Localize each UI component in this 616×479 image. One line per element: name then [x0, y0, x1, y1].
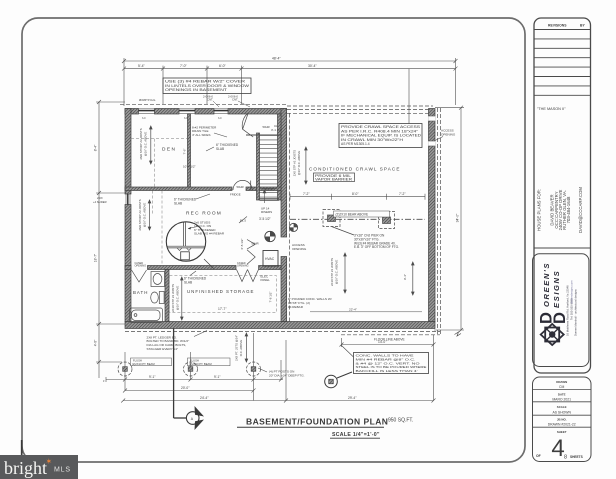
svg-text:7'-0": 7'-0": [180, 64, 188, 68]
svg-text:6'-5 1/2": 6'-5 1/2": [240, 239, 244, 250]
svg-text:JB NO.: JB NO.: [557, 417, 567, 421]
svg-text:703-484-1648: 703-484-1648: [566, 196, 571, 223]
svg-text:FLUSH: FLUSH: [190, 358, 199, 362]
svg-text:2ND STORY #2 JOISTS: 2ND STORY #2 JOISTS: [139, 128, 143, 159]
svg-text:"THE MASON II": "THE MASON II": [537, 107, 566, 111]
svg-text:2ND STORY #2 JOISTS: 2ND STORY #2 JOISTS: [138, 199, 142, 230]
svg-text:AS PER M1305.1.4: AS PER M1305.1.4: [341, 142, 370, 146]
svg-text:doreendesigns.com: doreendesigns.com: [570, 280, 574, 304]
svg-text:VAPOR BARRIER: VAPOR BARRIER: [315, 178, 353, 182]
svg-text:MLS: MLS: [54, 467, 71, 474]
svg-text:50HR: 50HR: [237, 185, 244, 189]
svg-text:50HR: 50HR: [263, 125, 270, 129]
svg-text:3-0: 3-0: [142, 117, 146, 120]
svg-text:BY: BY: [580, 24, 585, 28]
svg-text:6'-0": 6'-0": [219, 64, 227, 68]
svg-text:3'-1 1/2": 3'-1 1/2": [271, 128, 282, 132]
svg-text:SLAB: SLAB: [174, 201, 182, 205]
svg-text:SLAB W/2 #4 REBAR: SLAB W/2 #4 REBAR: [194, 232, 225, 236]
svg-text:18'-7": 18'-7": [94, 253, 98, 262]
svg-text:B1.5: B1.5: [240, 219, 246, 223]
svg-text:OF: OF: [536, 454, 541, 458]
svg-text:22'-4": 22'-4": [349, 308, 357, 312]
svg-text:ESIGNS: ESIGNS: [552, 270, 561, 308]
svg-text:BATH: BATH: [133, 290, 148, 295]
svg-text:7'-2": 7'-2": [303, 192, 310, 196]
svg-text:SHEETS: SHEETS: [570, 455, 583, 459]
svg-text:FRIDGE: FRIDGE: [230, 193, 241, 197]
svg-text:2X8 PT. JSTS @24": 2X8 PT. JSTS @24": [235, 335, 239, 361]
svg-text:BAKCFILL IS LESS THAN 4': BAKCFILL IS LESS THAN 4': [356, 369, 419, 373]
svg-text:30'-4": 30'-4": [308, 64, 317, 68]
svg-text:@16" O.C. ABOVE: @16" O.C. ABOVE: [142, 203, 146, 228]
svg-text:SLAB: SLAB: [216, 147, 224, 151]
svg-text:7'-8 1/2": 7'-8 1/2": [269, 292, 273, 303]
svg-text:1': 1': [103, 379, 105, 383]
svg-text:SHEET: SHEET: [557, 430, 567, 434]
svg-text:CNT.: CNT.: [207, 98, 213, 102]
svg-text:FLOOR LINE ABOVE: FLOOR LINE ABOVE: [374, 338, 405, 342]
svg-text:SLAB: SLAB: [184, 280, 192, 284]
svg-text:CONDITIONED CRAWL SPACE: CONDITIONED CRAWL SPACE: [309, 167, 401, 172]
svg-text:REVISIONS: REVISIONS: [548, 24, 567, 28]
svg-text:#4 REBAR: #4 REBAR: [288, 305, 304, 309]
svg-text:OPENING: OPENING: [135, 265, 147, 268]
svg-text:✶: ✶: [46, 457, 53, 466]
svg-text:Doreen Marshall - architectura: Doreen Marshall - architectural designs: [574, 289, 578, 336]
svg-text:O.C. ABOVE: O.C. ABOVE: [239, 340, 243, 357]
svg-text:OPENING: OPENING: [237, 265, 249, 268]
svg-text:PANEL: PANEL: [261, 278, 271, 282]
svg-text:DRAWN #2021-22: DRAWN #2021-22: [548, 423, 576, 427]
svg-text:OPENINGS IN BASEMENT: OPENINGS IN BASEMENT: [165, 88, 227, 92]
svg-text:@16" O.C. ABOVE: @16" O.C. ABOVE: [175, 286, 179, 311]
svg-text:29'-4": 29'-4": [348, 396, 357, 400]
svg-text:8: 8: [564, 455, 567, 461]
svg-text:CM: CM: [559, 385, 564, 389]
svg-text:9'-4": 9'-4": [403, 274, 407, 280]
svg-text:#DMP 5'CLG.: #DMP 5'CLG.: [139, 98, 156, 102]
svg-text:HVAC: HVAC: [265, 257, 275, 261]
svg-text:9'-1": 9'-1": [149, 375, 155, 379]
svg-text:950 SQ.FT.: 950 SQ.FT.: [388, 418, 413, 424]
svg-text:5'-4": 5'-4": [138, 64, 146, 68]
svg-text:3-0: 3-0: [218, 117, 222, 120]
svg-text:20'-0": 20'-0": [181, 386, 190, 390]
svg-text:2-0X: 2-0X: [97, 196, 103, 200]
svg-text:20" DIA. x24" DEEP FTG.: 20" DIA. x24" DEEP FTG.: [269, 373, 305, 377]
svg-text:OPENING: OPENING: [292, 247, 307, 251]
svg-text:OREEN'S: OREEN'S: [542, 262, 551, 307]
svg-text:7'-2": 7'-2": [399, 192, 406, 196]
svg-text:SCALE: SCALE: [557, 405, 567, 409]
svg-text:E.B. 3" OFF BOTTOM OF FTG.: E.B. 3" OFF BOTTOM OF FTG.: [354, 245, 399, 249]
svg-text:MARO 2021: MARO 2021: [552, 397, 571, 401]
svg-text:4: 4: [551, 435, 564, 462]
svg-text:REC ROOM: REC ROOM: [186, 211, 222, 217]
svg-text:DAVID@CCCARP.COM: DAVID@CCCARP.COM: [578, 187, 583, 233]
svg-text:@16" O.C. ABOVE: @16" O.C. ABOVE: [334, 260, 338, 285]
svg-text:4'-0": 4'-0": [94, 339, 98, 346]
svg-text:SCALE 1/4"=1'-0": SCALE 1/4"=1'-0": [332, 432, 380, 438]
svg-text:BASEMENT/FOUNDATION PLAN: BASEMENT/FOUNDATION PLAN: [246, 417, 388, 427]
svg-text:STAGGER EVERY 14": STAGGER EVERY 14": [147, 347, 179, 351]
svg-text:16 Matthews Road Rd, Hartford,: 16 Matthews Road Rd, Hartford, Va 22546: [566, 285, 570, 336]
svg-text:7'-6": 7'-6": [183, 149, 187, 155]
svg-text:OPENING: OPENING: [441, 132, 456, 136]
svg-text:24'-4": 24'-4": [200, 396, 209, 400]
svg-text:48'-4": 48'-4": [272, 56, 281, 60]
svg-text:FLUSH: FLUSH: [133, 358, 142, 362]
svg-text:2X10 STP #2 JOISTS: 2X10 STP #2 JOISTS: [330, 258, 334, 286]
svg-text:DATE: DATE: [558, 392, 566, 396]
svg-text:(2)2X10 BEAR ABOVE: (2)2X10 BEAR ABOVE: [336, 213, 369, 217]
svg-text:DEN: DEN: [162, 147, 176, 153]
svg-text:8'-4": 8'-4": [94, 144, 98, 151]
svg-text:CNT.: CNT.: [232, 98, 238, 102]
svg-text:2X10 STP #2 JOISTS: 2X10 STP #2 JOISTS: [171, 284, 175, 312]
svg-text:2X0 STP #2 JOISTS: 2X0 STP #2 JOISTS: [292, 150, 296, 177]
svg-text:FRIDGE: FRIDGE: [264, 188, 275, 192]
svg-text:8'-0": 8'-0": [352, 192, 359, 196]
svg-text:(2)2X10 PT. BEAM: (2)2X10 PT. BEAM: [189, 362, 212, 366]
svg-text:(2)2X10 PT. BEAM: (2)2X10 PT. BEAM: [132, 362, 155, 366]
svg-text:+4 SLIDER: +4 SLIDER: [93, 200, 107, 204]
svg-text:A: A: [191, 417, 194, 421]
svg-text:@16" O.C. ABOVE: @16" O.C. ABOVE: [297, 151, 301, 176]
svg-text:9'-1": 9'-1": [214, 375, 220, 379]
svg-text:@16" O.C. ABOVE: @16" O.C. ABOVE: [143, 132, 147, 157]
svg-text:UNFINISHED STORAGE: UNFINISHED STORAGE: [187, 289, 254, 294]
svg-text:10'-4 1/2": 10'-4 1/2": [183, 164, 196, 168]
svg-text:50HR: 50HR: [252, 241, 259, 245]
svg-text:RISERS: RISERS: [261, 210, 272, 214]
svg-text:HOUSE PLANS FOR:: HOUSE PLANS FOR:: [537, 189, 542, 231]
svg-text:34'-0": 34'-0": [456, 213, 460, 222]
svg-text:bright: bright: [4, 458, 47, 478]
svg-text:DRAWN: DRAWN: [556, 380, 567, 384]
svg-text:4" ALL SIDES: 4" ALL SIDES: [192, 133, 210, 137]
svg-text:17'-7": 17'-7": [218, 307, 227, 311]
svg-text:AS SHOWN: AS SHOWN: [552, 410, 571, 414]
svg-text:3'-5 1/2": 3'-5 1/2": [259, 217, 271, 221]
